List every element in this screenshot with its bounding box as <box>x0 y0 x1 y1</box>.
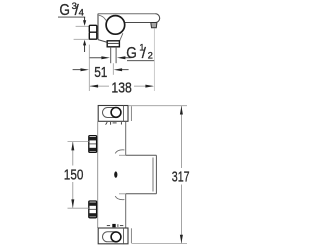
svg-text:150: 150 <box>64 166 84 183</box>
dim 150 up arrowhead <box>71 142 74 151</box>
extension line overall top <box>128 105 187 107</box>
faucet body bottom edge <box>98 40 108 43</box>
top handle knob circle <box>111 108 121 118</box>
top scale tick slash <box>106 122 108 125</box>
extension line inlet bottom <box>74 38 90 40</box>
extension line connection lower <box>68 207 89 209</box>
bottom scale square <box>112 224 115 227</box>
top scale dash <box>113 122 117 124</box>
extension line overall bottom <box>132 243 188 245</box>
extension line spout outlet <box>153 28 155 91</box>
extension line inlet top <box>76 25 90 27</box>
shower outlet pipe <box>111 47 116 63</box>
body fillet curve <box>99 15 106 20</box>
dim 150 line <box>72 142 74 208</box>
collar inner line <box>108 42 119 44</box>
dim 51 right arrow <box>114 68 129 71</box>
svg-text:2: 2 <box>148 50 153 61</box>
bottom handle cap line <box>130 228 132 243</box>
extension line connection upper <box>68 141 89 143</box>
label G3/4 <box>59 1 83 19</box>
spout upper curl <box>115 150 124 154</box>
bottom scale tick <box>117 224 119 227</box>
union nut upper <box>89 136 97 153</box>
body centre slot <box>114 171 117 177</box>
union nut lower <box>89 201 97 218</box>
extension line wall plane <box>88 45 90 91</box>
label G1/2 <box>126 43 153 62</box>
leader arrow down to G3/4 thread <box>83 17 86 26</box>
bottom scale dash 2 <box>120 225 123 227</box>
dim 51 left arrow <box>73 68 89 71</box>
bottom handle stadium <box>103 232 122 242</box>
label G3/4 underline <box>58 16 85 18</box>
body right edge lower <box>125 194 127 228</box>
dim 317 down arrowhead <box>180 235 183 244</box>
spout top edge inner lip <box>119 154 126 156</box>
dim 317 up arrowhead <box>180 106 183 115</box>
G1/2 arrow left <box>90 56 110 59</box>
faucet body left edge <box>97 14 99 40</box>
spout bottom edge inner lip <box>119 193 126 195</box>
pipe centre extension line <box>112 63 114 75</box>
spout inner end line <box>152 158 154 192</box>
top handle box inner line <box>123 106 125 122</box>
spout bar top edge <box>98 13 155 15</box>
leader arrow up to G3/4 thread <box>83 40 86 52</box>
dim 138 line <box>90 85 153 87</box>
bottom scale dash 1 <box>107 225 110 227</box>
thermostat dial circle <box>106 16 125 35</box>
body right edge upper <box>125 121 127 155</box>
spout right edge <box>155 155 157 194</box>
dim 150 down arrowhead <box>71 199 74 208</box>
dim 317 line <box>180 106 182 243</box>
spout top edge <box>126 154 157 156</box>
svg-text:G: G <box>126 45 137 62</box>
body right lower edge <box>120 33 123 41</box>
top handle stadium <box>103 108 122 118</box>
union nut (side view) <box>89 25 97 39</box>
svg-text:317: 317 <box>172 168 190 185</box>
top scale tick 3 <box>120 122 122 124</box>
label G1/2 underline <box>127 60 155 62</box>
collar below body <box>107 41 119 47</box>
bottom handle box inner line <box>123 228 125 244</box>
spout lower curl <box>115 196 124 200</box>
spout bar bottom edge <box>124 22 155 24</box>
svg-text:G: G <box>59 2 70 19</box>
G1/2 arrow right <box>117 56 131 59</box>
spout bar right cap <box>155 14 159 23</box>
top scale tick 2 <box>110 122 112 125</box>
svg-text:51: 51 <box>94 65 107 81</box>
top handle box <box>98 106 128 122</box>
dim 138 left arrowhead <box>90 85 99 88</box>
dim 138 right arrowhead <box>145 85 154 88</box>
bottom handle box <box>98 228 128 244</box>
spout bottom edge <box>126 193 157 195</box>
spout outlet nub <box>151 23 157 28</box>
bottom handle knob circle <box>111 232 121 242</box>
top handle cap line <box>130 106 132 121</box>
svg-text:138: 138 <box>111 80 131 97</box>
body left edge <box>97 121 99 228</box>
